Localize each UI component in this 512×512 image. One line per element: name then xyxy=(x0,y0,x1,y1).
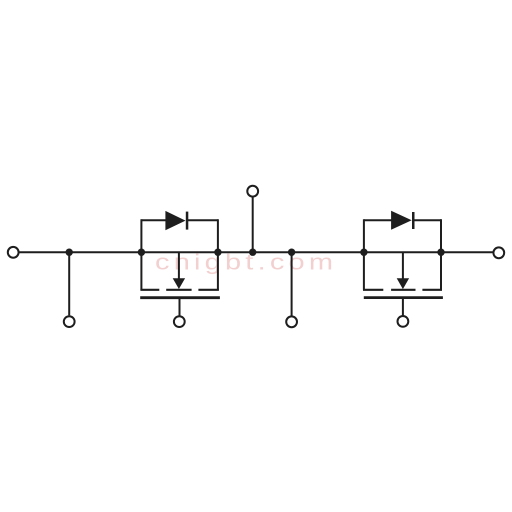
terminal T4 (lower center) xyxy=(286,316,297,327)
wire Q1 loop right xyxy=(217,219,219,290)
channel segment Q2 middle xyxy=(391,289,415,291)
node N7 xyxy=(437,249,444,256)
gate plate Q2 xyxy=(364,296,443,299)
wire Q1 gate lead xyxy=(179,298,181,317)
diode D1 cathode bar xyxy=(186,212,189,230)
node N1 xyxy=(66,249,73,256)
diode D1 triangle xyxy=(165,211,185,230)
diode D2 cathode bar xyxy=(412,212,415,229)
wire Q2 cathode lead xyxy=(413,219,441,221)
wire main bus xyxy=(19,251,492,253)
wire Q1 cathode lead xyxy=(187,219,218,221)
node N2 xyxy=(138,249,145,256)
wire Q2 gate lead xyxy=(402,298,404,317)
terminal T3 (top center) xyxy=(247,186,258,197)
wire Q1 loop left xyxy=(140,219,142,290)
channel segment Q1 middle xyxy=(166,289,191,291)
wire T3 stub (top center) xyxy=(252,197,254,253)
body arrow Q2 xyxy=(397,278,409,289)
gate plate Q1 xyxy=(140,296,220,299)
wire Q1 anode lead xyxy=(141,219,166,221)
terminal G1 (gate of Q1) xyxy=(174,316,185,327)
terminal T2 (lower left) xyxy=(64,316,75,327)
body arrow Q1 xyxy=(173,278,185,289)
wire Q2 source tap xyxy=(402,252,404,279)
terminal T5 (right) xyxy=(493,247,504,258)
wire Q1 source tap xyxy=(178,252,180,279)
channel segment Q1 right xyxy=(198,289,219,291)
node N4 xyxy=(249,249,256,256)
channel segment Q2 left xyxy=(363,289,383,291)
wire Q2 anode lead xyxy=(364,219,392,221)
node N5 xyxy=(288,249,295,256)
node N3 xyxy=(214,249,221,256)
terminal T1 (left) xyxy=(8,247,19,258)
wire Q2 loop left xyxy=(363,219,365,290)
wire N5 stub down xyxy=(291,252,293,315)
diode D2 triangle xyxy=(391,211,412,230)
wire Q2 loop right xyxy=(440,219,442,290)
channel segment Q2 right xyxy=(422,289,442,291)
node N6 xyxy=(360,249,367,256)
wire N1 stub down xyxy=(68,252,70,315)
channel segment Q1 left xyxy=(140,289,159,291)
terminal G2 (gate of Q2) xyxy=(398,316,409,327)
